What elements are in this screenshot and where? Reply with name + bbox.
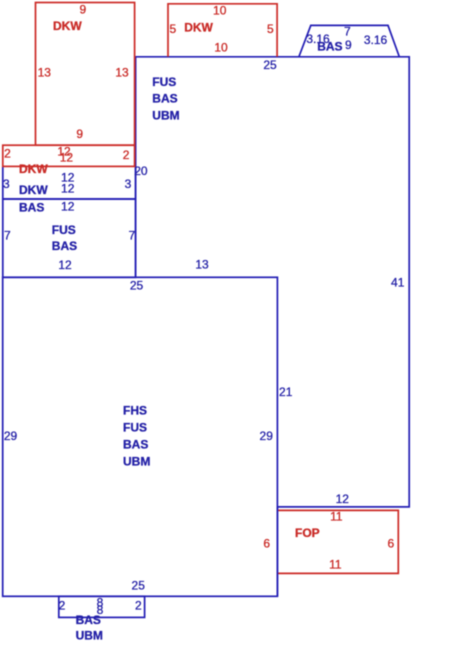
svg-text:11: 11 xyxy=(329,557,342,571)
svg-text:10: 10 xyxy=(214,41,228,55)
svg-text:20: 20 xyxy=(134,164,148,178)
room C outline (red DKW strip) xyxy=(3,145,135,166)
svg-text:12: 12 xyxy=(61,200,75,214)
room E outline (FUS BAS) xyxy=(3,199,136,277)
svg-text:9: 9 xyxy=(76,127,83,141)
svg-text:BAS: BAS xyxy=(19,201,44,215)
svg-text:FUS: FUS xyxy=(123,421,147,435)
svg-text:11: 11 xyxy=(330,509,343,523)
svg-text:6: 6 xyxy=(387,537,394,551)
room A outline (top-left DKW) xyxy=(36,3,135,146)
svg-text:41: 41 xyxy=(391,275,405,289)
svg-text:6: 6 xyxy=(263,537,270,551)
room I outline (bottom BAS UBM strip) xyxy=(59,596,145,617)
svg-text:FUS: FUS xyxy=(152,75,176,89)
svg-text:13: 13 xyxy=(115,66,129,80)
svg-text:2: 2 xyxy=(4,147,11,161)
svg-text:BAS: BAS xyxy=(152,92,177,106)
svg-text:BAS: BAS xyxy=(76,613,101,627)
svg-text:21: 21 xyxy=(279,385,293,399)
svg-text:9: 9 xyxy=(79,3,86,17)
room D outline (blue DKW strip, open top under red wall) xyxy=(3,166,136,199)
svg-text:29: 29 xyxy=(260,429,274,443)
svg-text:2: 2 xyxy=(59,599,66,613)
svg-text:DKW: DKW xyxy=(53,19,82,33)
svg-text:FOP: FOP xyxy=(295,526,320,540)
svg-text:2: 2 xyxy=(135,599,142,613)
svg-text:13: 13 xyxy=(38,66,52,80)
room H outline (FHS FUS BAS UBM) xyxy=(3,277,278,596)
svg-text:BAS: BAS xyxy=(317,40,342,54)
svg-text:29: 29 xyxy=(4,429,18,443)
svg-text:7: 7 xyxy=(344,24,351,38)
svg-text:UBM: UBM xyxy=(76,628,103,642)
wire: blue wall over FOP left edge xyxy=(276,507,278,596)
svg-text:7: 7 xyxy=(128,228,135,242)
svg-text:12: 12 xyxy=(336,492,350,506)
svg-text:25: 25 xyxy=(132,579,146,593)
svg-text:25: 25 xyxy=(263,58,277,72)
svg-text:UBM: UBM xyxy=(123,454,150,468)
room F outline (FOP, left side hidden under blue wall) xyxy=(277,510,398,573)
svg-text:2: 2 xyxy=(123,148,130,162)
svg-text:12: 12 xyxy=(61,182,75,196)
svg-text:9: 9 xyxy=(345,38,352,52)
svg-text:3: 3 xyxy=(3,177,10,191)
svg-text:3.16: 3.16 xyxy=(364,33,388,47)
svg-text:12: 12 xyxy=(58,258,72,272)
svg-text:5: 5 xyxy=(169,22,176,36)
svg-text:12: 12 xyxy=(60,151,74,165)
svg-text:UBM: UBM xyxy=(152,109,179,123)
svg-text:7: 7 xyxy=(4,228,11,242)
svg-text:5: 5 xyxy=(267,22,274,36)
svg-text:FHS: FHS xyxy=(123,404,147,418)
svg-text:BAS: BAS xyxy=(52,239,77,253)
svg-text:BAS: BAS xyxy=(123,438,148,452)
svg-text:25: 25 xyxy=(130,279,144,293)
svg-text:10: 10 xyxy=(213,4,227,18)
svg-text:13: 13 xyxy=(195,258,209,272)
svg-text:FUS: FUS xyxy=(52,223,76,237)
svg-text:DKW: DKW xyxy=(19,162,48,176)
room B outline (top DKW, open bottom onto blue wall) xyxy=(168,4,277,57)
svg-text:DKW: DKW xyxy=(19,183,48,197)
room G outline (big L-shape FUS BAS UBM) xyxy=(136,57,410,507)
svg-text:DKW: DKW xyxy=(184,21,213,35)
trapezoid BAS outline xyxy=(299,25,400,57)
svg-text:3: 3 xyxy=(125,177,132,191)
